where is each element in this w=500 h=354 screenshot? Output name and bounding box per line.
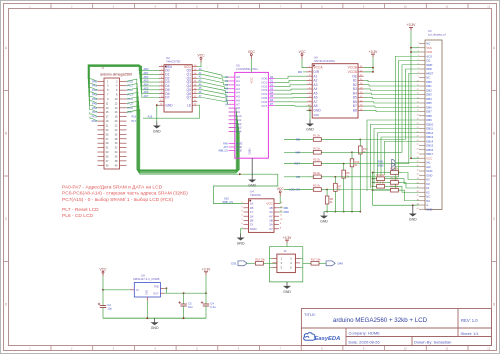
resistor R11 5k [373, 173, 388, 181]
svg-text:40: 40 [417, 208, 419, 210]
wire TAB [164, 287, 166, 289]
wire VCC to U2 pin20 [197, 63, 201, 67]
wire I/O4 to U6 A5 [275, 92, 307, 95]
wire I/O6 to U6 A7 [275, 101, 307, 103]
svg-text:26: 26 [417, 148, 419, 150]
wire I/O7 to U6 A8 [275, 105, 307, 108]
svg-text:AD2: AD2 [144, 76, 149, 79]
wire SW0 to IH0 [395, 166, 419, 168]
wire network bottom rail [373, 204, 413, 206]
wire VCC to U5 [250, 59, 252, 73]
wire I/O5 to U6 A6 [275, 97, 307, 99]
wire R17 to D49 [323, 262, 327, 264]
svg-text:R5 2k: R5 2k [313, 184, 320, 188]
svg-text:LCD_CS: LCD_CS [289, 188, 300, 192]
IC U2 74HC573D latch [159, 56, 197, 112]
svg-text:1: 1 [418, 42, 419, 44]
net port D49 [326, 261, 335, 266]
wire WR to divider [325, 151, 352, 153]
svg-text:32: 32 [417, 174, 419, 176]
+3.3V flag above U6 [369, 50, 379, 58]
svg-text:AMS1117-3.3_C6186: AMS1117-3.3_C6186 [133, 277, 160, 281]
net port D31 [238, 261, 247, 266]
wire to K3 [402, 173, 419, 180]
wire PA1 J1 to U2 D1 [88, 65, 142, 86]
svg-text:R11 5k: R11 5k [376, 173, 385, 177]
wire B7 to DB6 [364, 106, 419, 107]
svg-text:OUT: OUT [153, 293, 159, 296]
wire to K2 [388, 186, 419, 192]
svg-text:GND: GND [250, 227, 258, 231]
wire GND rail [103, 317, 206, 319]
svg-text:GND: GND [313, 109, 321, 113]
svg-text:18: 18 [417, 114, 419, 116]
svg-text:25: 25 [417, 144, 419, 146]
svg-text:arduino atmega2560: arduino atmega2560 [100, 73, 132, 77]
wire riser DB10 [371, 124, 420, 188]
svg-text:IN: IN [136, 289, 139, 292]
svg-text:VCC: VCC [248, 50, 256, 54]
wire +3.3V down to LCD VCC [411, 31, 419, 159]
svg-text:PC0-PC6(A8-A14) - старшая част: PC0-PC6(A8-A14) - старшая часть адреса S… [62, 191, 188, 197]
svg-text:lcd_display_ef: lcd_display_ef [428, 32, 446, 36]
wire VCC down [102, 276, 104, 302]
svg-text:R17 10k: R17 10k [311, 257, 321, 261]
wire U2 D4 input [143, 85, 160, 87]
svg-text:TAB: TAB [154, 286, 159, 289]
ground below J2 [283, 282, 291, 294]
svg-text:GND: GND [409, 218, 417, 222]
wire to C4 [205, 293, 207, 300]
svg-text:D49: D49 [338, 262, 344, 266]
svg-text:#CE: #CE [236, 149, 242, 153]
svg-text:Sheet: 1/1: Sheet: 1/1 [461, 331, 480, 336]
wire PC3 J1 to SRAM A11 [127, 92, 238, 171]
svg-text:RST: RST [294, 162, 300, 166]
wire +3.3V to VSS [411, 47, 419, 49]
wire riser DB13 [381, 137, 419, 178]
wire U4 4B [279, 207, 283, 209]
wire Q0 to A0 [197, 71, 228, 78]
title block [301, 309, 491, 346]
svg-text:GND: GND [313, 114, 319, 117]
svg-text:SW0: SW0 [378, 164, 384, 168]
svg-text:GND: GND [237, 242, 245, 246]
wire C4 leg [205, 310, 207, 319]
wire I/O2 to U6 A3 [275, 85, 307, 87]
svg-text:GND: GND [248, 148, 252, 154]
wire RD riser to LCD [360, 69, 419, 140]
wire R13 left [372, 185, 375, 187]
ground rail for dividers [324, 211, 361, 213]
wire J2 pin2 [300, 258, 303, 260]
svg-text:#DB_CS: #DB_CS [218, 150, 228, 153]
wire CD divider leg [334, 177, 336, 212]
wire D31 to R19 [247, 262, 252, 264]
wire PA4 J1 to U2 D4 [89, 66, 143, 99]
svg-text:PC7(A15) - 0 - выбор SRAM/ 1 -: PC7(A15) - 0 - выбор SRAM/ 1 - выбор LCD… [62, 197, 173, 203]
svg-text:D7: D7 [165, 96, 169, 100]
wire PC1 J1 to SRAM A13 [127, 84, 239, 171]
wire riser DB14 [385, 141, 420, 175]
wire RD to divider [325, 139, 361, 141]
wire R11 left [372, 178, 375, 180]
svg-text:REV: 1.0: REV: 1.0 [461, 318, 478, 323]
wire U4 4A [279, 211, 283, 213]
svg-text:37: 37 [417, 195, 419, 197]
svg-text:B8: B8 [353, 109, 357, 113]
wire J2 loop left [269, 247, 287, 282]
svg-text:VCC: VCC [250, 77, 254, 83]
svg-text:SN74LVC4245A: SN74LVC4245A [314, 59, 335, 63]
wire U6 DIR [303, 71, 307, 73]
wire RST riser to LCD [344, 73, 419, 163]
wire riser DB12 [378, 133, 420, 182]
svg-text:+3.3V: +3.3V [369, 50, 379, 54]
svg-text:Date: 2020-08-26: Date: 2020-08-26 [349, 339, 381, 344]
wire to C3 [183, 293, 185, 300]
wire J1 left lower pin [90, 112, 98, 117]
resistor R1 2k [310, 134, 325, 142]
svg-text:A15: A15 [224, 197, 229, 201]
wire PA5 J1 to U2 D5 [89, 66, 142, 103]
svg-text:B: B [493, 132, 495, 136]
svg-text:VCC: VCC [299, 50, 307, 54]
wire I/O3 to U6 A4 [275, 89, 307, 90]
wire U2 D1 input [143, 73, 160, 75]
svg-text:+3.3V: +3.3V [202, 268, 212, 272]
wire LCD_CS to divider [325, 189, 327, 191]
resistor R8 3k [325, 196, 333, 204]
wire I/O1 to U6 A2 [275, 80, 307, 82]
wire PC2 J1 to SRAM A12 [127, 88, 239, 171]
wire PC0 J1 to SRAM A14 [127, 79, 240, 170]
wire VCC to U6 VCCA [302, 59, 307, 68]
svg-text:PC5: PC5 [128, 101, 134, 105]
svg-text:GND: GND [165, 103, 173, 107]
svg-text:AD7: AD7 [144, 95, 149, 98]
svg-text:Drawn By: Sebastian: Drawn By: Sebastian [414, 339, 451, 344]
svg-text:+3.3V: +3.3V [283, 236, 293, 240]
IC U5 LY62256 SRAM [218, 63, 274, 158]
ground below LCD [409, 210, 417, 222]
wire U2 D3 input [143, 81, 160, 83]
wire net A15 to U2 LE [143, 105, 200, 118]
wire C3 leg [183, 310, 185, 319]
wire Q6 to A6 [197, 94, 228, 101]
wire Q5 to A5 [197, 90, 228, 97]
wire PA2 J1 to U2 D2 [88, 65, 142, 90]
wire to ground below LCD [412, 205, 414, 209]
+3.3V flag above J2 [283, 236, 293, 244]
wire U2 GND down [157, 105, 159, 121]
wire PC5 J1 to SRAM A9 [127, 101, 237, 172]
wire WR divider leg [351, 152, 353, 211]
wire U2 D6 input [143, 93, 160, 95]
ground regulator rail [151, 318, 159, 330]
wire U4 GND [241, 229, 244, 234]
wire net CD [284, 176, 310, 178]
wire RST divider leg [343, 164, 345, 212]
capacitor C2 10u [98, 302, 113, 311]
wire U2 D0 input [143, 70, 160, 72]
resistor R4 2k [310, 171, 325, 179]
power flag VCC above U6 [299, 50, 307, 59]
wire R10 left [373, 172, 387, 174]
svg-text:AD5: AD5 [144, 87, 149, 90]
wire U5 GND stub [251, 158, 253, 175]
svg-text:Company: HOME: Company: HOME [349, 330, 381, 335]
resistor R12 5k [387, 177, 402, 185]
wire PA6 J1 to U2 D6 [89, 66, 142, 108]
wire PC4 J1 to SRAM A10 [127, 97, 238, 172]
svg-text:R1 2k: R1 2k [313, 134, 320, 138]
power flag VCC above U4 [277, 187, 285, 196]
svg-text:#WR: #WR [284, 211, 290, 214]
wire PC6 J1 to SRAM A8 [127, 106, 237, 173]
wire Q3 to A3 [197, 82, 228, 89]
svg-text:PA1: PA1 [92, 84, 97, 88]
wire LCD_CS divider leg [326, 190, 328, 212]
connector J2 [272, 249, 300, 273]
wire U2 D5 input [143, 89, 160, 91]
svg-text:GND: GND [145, 290, 148, 296]
svg-text:PL6: PL6 [132, 115, 137, 119]
svg-text:R3 2k: R3 2k [313, 158, 320, 162]
wire VCC to U4 [279, 196, 280, 204]
wire TAB to OUT [165, 288, 167, 293]
resistor R3 2k [310, 158, 325, 166]
wire VCC to U9 IN [103, 289, 130, 291]
wire B8 to DB7 [364, 110, 419, 111]
resistor R14 5k [387, 184, 402, 192]
wire riser DB11 [374, 129, 419, 185]
regulator U9 AMS1117-3.3 [130, 274, 164, 302]
svg-text:I/O7: I/O7 [262, 104, 268, 108]
svg-text:AD0: AD0 [144, 68, 149, 71]
svg-text:VCC: VCC [277, 187, 285, 191]
svg-text:TITLE:: TITLE: [304, 312, 316, 317]
svg-text:0.1u: 0.1u [210, 305, 216, 309]
svg-text:A15: A15 [148, 114, 153, 118]
IC U6 SN74LVC4245 level shifter [307, 56, 364, 119]
wire C2 to GND rail [102, 311, 104, 318]
svg-text:3Y: 3Y [269, 227, 273, 231]
resistor R16 3k [350, 159, 360, 167]
wire Q1 to A1 [197, 74, 228, 81]
resistor R17 10k [308, 257, 323, 265]
svg-text:Q7: Q7 [186, 96, 191, 100]
wire R14 left [373, 189, 387, 191]
svg-text:GND: GND [320, 220, 328, 224]
svg-text:R19 10k: R19 10k [255, 257, 265, 261]
wire net LCD_CS [284, 189, 310, 191]
jumper SW1 [392, 159, 396, 166]
svg-text:A14: A14 [236, 130, 242, 134]
svg-text:27: 27 [417, 153, 419, 155]
svg-text:GND: GND [426, 207, 432, 211]
svg-text:PA2: PA2 [92, 88, 97, 92]
svg-text:PC6: PC6 [128, 106, 134, 110]
wire Q7 to A7 [197, 98, 228, 105]
wire PC7 A15 net to U4 [127, 110, 278, 204]
ground below U5 [248, 176, 256, 188]
jumper SW0 [392, 163, 396, 170]
svg-text:GND: GND [151, 326, 159, 330]
wire net RD [284, 139, 310, 141]
svg-text:+3.3V: +3.3V [407, 23, 417, 27]
wire PA3 J1 to U2 D3 [89, 65, 143, 94]
wire J2 pin6 [300, 266, 303, 268]
svg-text:AD3: AD3 [144, 80, 149, 83]
svg-text:AD6: AD6 [144, 91, 149, 94]
ground below U4 [237, 234, 245, 246]
svg-text:R2 2k: R2 2k [313, 146, 320, 150]
svg-text:GND: GND [306, 128, 314, 132]
wire U6 GND2 [307, 106, 311, 110]
wire WR riser to LCD [352, 65, 419, 153]
wire +3.3V to J2 loop [286, 243, 288, 246]
wire R19 to J2 [267, 262, 277, 264]
connector J1 arduino atmega2560 [92, 65, 137, 169]
resistor R2 2k [310, 146, 325, 154]
capacitor C3 10u [178, 301, 193, 310]
wire Q2 to A2 [197, 78, 228, 85]
power flag VCC above U5 [248, 50, 256, 59]
resistor R13 5k [373, 180, 388, 188]
wire net WR [284, 151, 310, 153]
wire J2 pin1 [269, 258, 272, 260]
wire CD to divider [325, 176, 336, 178]
wire U6 GND [307, 110, 311, 119]
wire RST to divider [325, 163, 344, 165]
wire R12 left [373, 181, 387, 183]
svg-text:AD4: AD4 [144, 83, 149, 86]
svg-text:#RD: #RD [284, 207, 289, 210]
resistor R10 5k [387, 167, 402, 175]
svg-text:PA0: PA0 [92, 79, 97, 83]
wire +3.3V to U6 VCCB [364, 57, 373, 67]
wire I/O0 to U6 A1 [275, 76, 307, 78]
svg-text:D31: D31 [231, 262, 237, 266]
svg-text:CD: CD [296, 175, 300, 179]
wire +3.3V to U6 VCCB pin23 [364, 68, 373, 72]
+3.3V flag above LCD [407, 23, 417, 31]
svg-text:PL6 - CD LCD: PL6 - CD LCD [62, 213, 93, 219]
wire B4 to DB3 [364, 93, 419, 94]
svg-text:EasyEDA: EasyEDA [315, 336, 341, 342]
frame ticks and indices [50, 4, 52, 9]
wire to A net [402, 190, 419, 201]
wire B3 to DB2 [364, 89, 419, 90]
svg-text:9: 9 [418, 76, 419, 78]
wire B6 to DB5 [364, 102, 419, 103]
wire PA0 J1 to U2 D0 [88, 65, 143, 82]
svg-text:J2: J2 [284, 249, 287, 253]
ground below U2 [153, 122, 161, 134]
resistor R7 3k [334, 183, 342, 191]
wire network common left [372, 173, 374, 206]
power flag VCC above U2 [198, 54, 206, 63]
svg-text:R4 2k: R4 2k [313, 171, 320, 175]
wire PA7 J1 to U2 D7 [90, 67, 143, 113]
wire riser DB9 [367, 120, 419, 191]
wire B2 to DB1 [364, 85, 419, 86]
svg-text:DIR: DIR [298, 71, 302, 74]
capacitor C4 0.1u [201, 301, 216, 310]
wire U9 GND leg [146, 301, 148, 318]
svg-text:PL7 - Reset LCD: PL7 - Reset LCD [62, 207, 99, 213]
svg-text:R13 5k: R13 5k [376, 180, 385, 184]
svg-text:VCC: VCC [198, 54, 206, 58]
wire OUT to +3.3V [164, 292, 206, 294]
svg-text:B: B [5, 132, 7, 136]
wire LCD_CS riser to LCD [327, 56, 419, 189]
wire J2 to R17 [303, 262, 308, 264]
svg-text:PA0-PA7 - Адрес/Дата SRAM и ДА: PA0-PA7 - Адрес/Дата SRAM и ДАТА на LCD [62, 185, 163, 191]
wire +3.3V down [205, 275, 207, 293]
svg-text:GND: GND [153, 130, 161, 134]
svg-text:LE: LE [187, 103, 192, 107]
svg-text:VCC: VCC [100, 267, 108, 271]
svg-text:74HC573D: 74HC573D [166, 60, 180, 64]
wire net RST [284, 163, 310, 165]
svg-text:10u: 10u [107, 307, 112, 311]
wire B5 to DB4 [364, 98, 419, 99]
wire CD riser to LCD [335, 61, 419, 177]
wire U2 D7 input [143, 97, 160, 99]
svg-text:RD: RD [296, 138, 300, 142]
ground divider rail [320, 212, 328, 224]
wire J2 pin5 [269, 266, 272, 268]
wire Q4 to A4 [197, 86, 228, 93]
svg-text:arduino MEGA2560 + 32kb + LCD: arduino MEGA2560 + 32kb + LCD [333, 317, 428, 324]
resistor R5 2k [310, 184, 325, 192]
ground below U6 [306, 120, 314, 132]
resistor R15 3k [359, 146, 369, 154]
wire J1 left lower pin [90, 117, 98, 122]
svg-text:SW1: SW1 [378, 159, 384, 163]
IC U4 74HC00 NAND [241, 189, 283, 232]
resistor R6 3k [342, 170, 350, 178]
wire rail to LCD A pin [413, 204, 419, 206]
svg-text:WR: WR [295, 150, 300, 154]
resistor R19 10k [252, 257, 267, 265]
+3.3V flag regulator [202, 268, 212, 276]
wire U2 D2 input [143, 77, 160, 79]
svg-text:PC4: PC4 [128, 97, 134, 101]
power flag VCC regulator [100, 267, 108, 276]
wire RD divider leg [359, 140, 361, 212]
connector U3 lcd_display_ef [417, 29, 446, 211]
wire to K0 [388, 179, 419, 184]
EasyEDA logo [304, 333, 341, 343]
wire to K1 [402, 182, 419, 188]
svg-text:LY62256SL-70LL: LY62256SL-70LL [236, 67, 259, 71]
svg-text:10u: 10u [188, 305, 193, 309]
svg-text:GND: GND [283, 290, 291, 294]
svg-text:AD1: AD1 [144, 72, 149, 75]
wire +3.3V to VDD [411, 51, 419, 53]
svg-text:74HC00: 74HC00 [250, 193, 261, 197]
svg-text:PL7: PL7 [132, 119, 137, 123]
wire B1 to DB0 [364, 80, 419, 81]
svg-text:GND: GND [248, 184, 256, 188]
wire J2 loop right [287, 247, 303, 282]
wire SW1 to IH1 [395, 162, 419, 164]
svg-text:31: 31 [417, 170, 419, 172]
